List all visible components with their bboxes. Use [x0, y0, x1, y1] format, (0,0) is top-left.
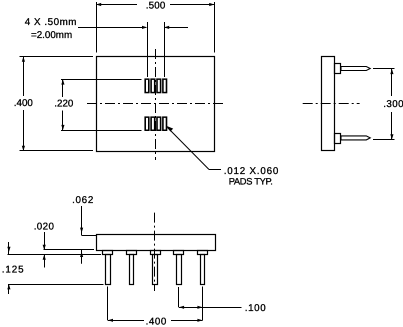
- svg-text:.100: .100: [245, 303, 266, 314]
- svg-text:.500: .500: [146, 1, 166, 12]
- svg-text:=2.00mm: =2.00mm: [31, 30, 72, 41]
- svg-text:4 X .50mm: 4 X .50mm: [25, 17, 77, 28]
- svg-text:.400: .400: [14, 98, 34, 109]
- svg-text:.062: .062: [72, 195, 94, 206]
- svg-text:.020: .020: [34, 222, 55, 233]
- svg-text:PADS TYP.: PADS TYP.: [229, 176, 273, 186]
- svg-text:.125: .125: [2, 264, 25, 275]
- svg-text:.300: .300: [383, 99, 403, 110]
- svg-text:.220: .220: [54, 98, 74, 109]
- svg-text:.400: .400: [146, 316, 167, 327]
